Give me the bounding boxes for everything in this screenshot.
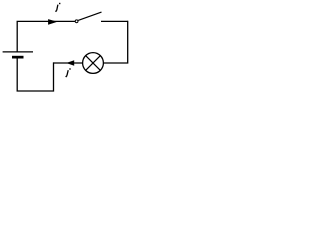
label I (bottom) xyxy=(66,68,71,77)
wire: lamp to riser xyxy=(53,62,82,64)
lamp L1 cross stroke 1 xyxy=(86,56,101,71)
battery B1 long plate (+) xyxy=(3,51,33,53)
wire: switch to top-right corner xyxy=(101,20,128,22)
wire: riser down, bottom horizontal, left vertical up to battery xyxy=(17,58,53,91)
label I (top) xyxy=(56,3,61,12)
current arrow I1 (top, pointing right) xyxy=(48,19,57,25)
lamp L1 circle xyxy=(83,53,104,74)
switch S1 pivot circle xyxy=(75,20,78,23)
wire: left vertical + top horizontal to switch xyxy=(17,21,75,51)
wire: right vertical down to lamp level xyxy=(103,21,127,63)
current arrow I2 (pointing left toward battery) xyxy=(66,60,74,66)
battery B1 short plate (-) xyxy=(12,56,24,59)
switch S1 blade xyxy=(78,12,101,20)
lamp L1 cross stroke 2 xyxy=(86,56,101,71)
